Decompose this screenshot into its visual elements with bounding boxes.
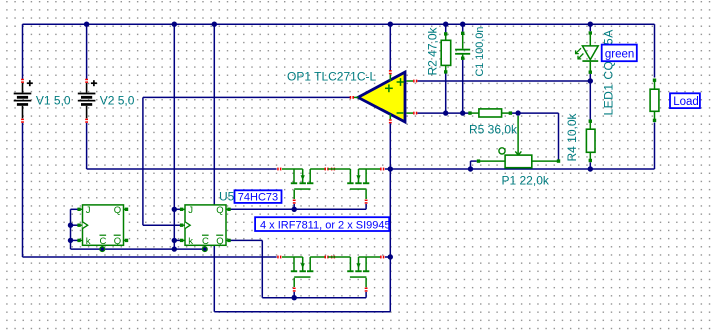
svg-text:k: k [188, 236, 193, 247]
svg-text:k: k [86, 236, 91, 247]
svg-text:Q: Q [216, 205, 223, 216]
svg-text:J: J [86, 205, 91, 216]
svg-text:Q: Q [216, 236, 223, 247]
svg-text:J: J [188, 205, 193, 216]
svg-text:74HC73: 74HC73 [238, 192, 278, 204]
svg-text:LED1 CQX35A: LED1 CQX35A [602, 29, 616, 115]
svg-text:OP1 TLC271C-L: OP1 TLC271C-L [287, 70, 376, 84]
svg-text:Q: Q [114, 205, 121, 216]
svg-text:V1 5,0: V1 5,0 [36, 94, 71, 108]
svg-text:R2 47,0k: R2 47,0k [426, 26, 440, 75]
svg-text:U5: U5 [219, 190, 235, 204]
svg-text:C: C [100, 236, 107, 247]
svg-text:R4 10,0k: R4 10,0k [565, 112, 579, 161]
svg-text:4 x IRF7811, or 2 x SI9945: 4 x IRF7811, or 2 x SI9945 [260, 219, 391, 231]
svg-text:V2 5,0: V2 5,0 [100, 94, 135, 108]
svg-text:Q: Q [114, 236, 121, 247]
svg-text:C: C [202, 236, 209, 247]
svg-text:C1 100,0n: C1 100,0n [474, 27, 486, 77]
svg-text:Load: Load [673, 96, 699, 108]
svg-text:P1 22,0k: P1 22,0k [502, 174, 550, 188]
svg-text:R5 36,0k: R5 36,0k [469, 123, 518, 137]
svg-text:green: green [605, 49, 634, 61]
